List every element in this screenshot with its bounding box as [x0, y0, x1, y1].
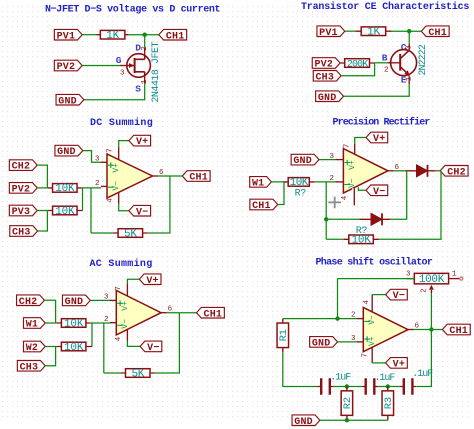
wire GND rail: [320, 419, 388, 421]
resistor R2 pins: [346, 387, 348, 421]
potentiometer RV1 pin 3: [406, 278, 414, 280]
op-amp U1 body: [107, 154, 153, 198]
svg-text:V−: V−: [393, 291, 405, 302]
svg-text:3: 3: [351, 335, 356, 343]
wire PV2 to gate: [82, 65, 120, 67]
wire pin4 to V-: [127, 341, 140, 347]
svg-text:V+: V+: [146, 276, 158, 287]
global label V+ (rect): [366, 132, 388, 145]
capacitor C3 pins: [400, 386, 416, 388]
global label GND (phase): [310, 337, 338, 350]
wire R8 to CH2 node: [379, 171, 442, 240]
pin name E: [401, 75, 407, 86]
diode D1 pins: [406, 170, 436, 172]
global label W2: [24, 341, 46, 354]
wire emitter to GND: [344, 84, 410, 96]
pin number 2 (phase): [351, 312, 356, 320]
op-amp U2 pin 6: [388, 170, 394, 172]
pin number 3 (phase): [351, 335, 356, 343]
resistor R3 200K pins: [340, 62, 375, 64]
svg-text:DC Summing: DC Summing: [90, 117, 153, 129]
resistor R8 10K: [349, 235, 374, 247]
global label PV2 (DC): [9, 183, 37, 196]
svg-text:PV2: PV2: [57, 62, 76, 73]
svg-text:2: 2: [351, 312, 356, 320]
wire inverting node down: [325, 182, 327, 239]
pin number 2: [141, 46, 149, 51]
wire feedback bottom: [91, 232, 113, 234]
svg-text:10K: 10K: [64, 318, 84, 330]
global label PV2: [54, 60, 82, 73]
wire CH3 to PV3 node: [38, 211, 48, 232]
pin number 3 (AC): [104, 294, 109, 302]
global label V- (AC): [140, 341, 162, 354]
op-amp U2 pin 4: [352, 188, 357, 205]
transistor Q2 base pin: [388, 62, 400, 64]
wire to D2: [326, 218, 359, 220]
global label W1 (AC): [24, 318, 46, 331]
svg-text:10K: 10K: [55, 183, 75, 195]
potentiometer RV1 pin 1: [449, 277, 463, 280]
resistor R1 pins: [282, 319, 284, 352]
junction inverting node: [324, 217, 328, 221]
pin number 2 (pot): [420, 288, 428, 293]
junction R2 bottom: [345, 418, 349, 422]
wire 200K to base: [375, 62, 388, 64]
wire PV3 to R5: [37, 210, 48, 212]
op-amp U4 pin 4 (top): [371, 295, 373, 312]
resistor R7 10K pins: [283, 181, 315, 183]
svg-text:PV3: PV3: [12, 207, 31, 218]
pin number 6 (AC): [168, 306, 173, 314]
resistor R10 10K pins: [57, 346, 92, 348]
svg-text:R2: R2: [342, 397, 354, 409]
resistor R3: [382, 391, 395, 416]
wire output: [394, 170, 407, 172]
resistor R2 1K: [361, 27, 386, 39]
op-amp U1 pin 2: [101, 185, 107, 187]
pin number 7 (AC): [115, 286, 123, 291]
wire feedback left (AC): [103, 323, 105, 373]
wire output junction: [414, 329, 443, 331]
wire R1 to CH1: [129, 34, 159, 36]
svg-text:CH1: CH1: [204, 309, 223, 320]
resistor R4 10K: [53, 183, 78, 195]
wire GND to pin3: [90, 299, 110, 301]
pin number 2 (rect): [329, 175, 334, 183]
wire inverting row: [338, 318, 358, 320]
wire R1 bottom to C1: [283, 352, 318, 387]
svg-text:100K: 100K: [419, 274, 445, 286]
wire PV1 to R2: [345, 30, 356, 32]
wire to R8: [326, 238, 343, 240]
svg-text:4: 4: [107, 198, 115, 203]
global label V+ (AC): [139, 274, 161, 287]
resistor R8 10K pins: [344, 238, 379, 240]
resistor R9 10K: [61, 318, 86, 330]
op-amp U4 pin 2: [357, 318, 363, 320]
svg-text:10K: 10K: [64, 342, 84, 354]
wire GND to pin3: [83, 151, 101, 163]
global label V- (DC): [129, 205, 151, 218]
svg-text:V−: V−: [136, 207, 148, 218]
global label CH2 (AC): [17, 295, 45, 308]
transistor Q2 2N2222 body: [391, 50, 417, 76]
resistor R4 10K pins: [48, 187, 82, 189]
junction output node (phase): [429, 327, 433, 331]
svg-text:2: 2: [329, 175, 334, 183]
transistor Q2 collector pin: [408, 44, 410, 50]
transistor Q1 gate pin: [120, 63, 135, 68]
svg-text:5K: 5K: [131, 368, 144, 380]
op-amp U2 pin 3: [336, 159, 344, 161]
pin number 6: [159, 169, 164, 177]
wire GND to pin3: [319, 159, 336, 161]
op-amp U3 pin 6: [161, 312, 167, 314]
svg-text:V−: V−: [121, 319, 130, 329]
wire R9 to pin2: [91, 322, 110, 324]
svg-text:Transistor CE Characteristics: Transistor CE Characteristics: [301, 1, 469, 13]
resistor R1: [277, 323, 290, 348]
svg-text:R3: R3: [383, 397, 395, 409]
global label CH2 (rect): [440, 166, 468, 179]
global label GND (DC): [55, 145, 83, 158]
svg-text:2: 2: [104, 316, 109, 324]
wire feedback right: [148, 176, 170, 233]
global label CH3 (AC): [17, 361, 45, 374]
svg-text:V+: V+: [112, 163, 121, 173]
reference R?: [295, 189, 307, 200]
potentiometer RV1 100K: [414, 273, 448, 286]
svg-text:2: 2: [384, 67, 389, 75]
wire output to C3: [417, 330, 432, 387]
wire R1 top to node: [283, 318, 338, 320]
wire C1 to C2: [334, 386, 362, 388]
svg-text:PV2: PV2: [314, 60, 333, 71]
svg-text:4: 4: [341, 195, 349, 200]
op-amp U3 input marks: [117, 301, 130, 329]
svg-text:GND: GND: [65, 297, 84, 308]
wire V- stub: [358, 187, 366, 190]
svg-text:CH3: CH3: [12, 228, 31, 239]
global label PV1: [54, 29, 82, 42]
svg-text:PV2: PV2: [12, 185, 31, 196]
wire PV1 to R1: [82, 34, 96, 36]
wire R4 to pin2: [82, 187, 101, 189]
op-amp U3 pin 3: [110, 299, 116, 301]
global label CH1: [159, 29, 187, 42]
op-amp U1 pin 6: [153, 175, 159, 177]
wire pot3 to inverting node: [338, 279, 415, 319]
wire D1 to CH2: [435, 170, 440, 172]
global label CH1 (AC): [197, 307, 225, 320]
svg-text:.1uF: .1uF: [330, 373, 351, 384]
svg-text:2N4418 JFET: 2N4418 JFET: [151, 42, 162, 103]
op-amp U4 pin 6: [408, 329, 414, 331]
op-amp U1 pin 3: [101, 161, 107, 163]
svg-text:V−: V−: [368, 315, 377, 325]
pin number 3: [95, 156, 100, 164]
svg-text:GND: GND: [57, 147, 76, 158]
pin number 3 (rect): [329, 153, 334, 161]
svg-text:1K: 1K: [106, 30, 119, 42]
junction collector node: [407, 29, 411, 33]
op-amp U2 body: [343, 149, 388, 193]
wire join W2 node: [91, 323, 93, 347]
svg-text:W1: W1: [26, 320, 38, 331]
svg-text:Precision Rectifier: Precision Rectifier: [333, 117, 431, 129]
svg-text:.1uF: .1uF: [374, 373, 395, 384]
svg-text:V+: V+: [393, 360, 405, 371]
potentiometer RV1 wiper pin 2: [429, 285, 434, 293]
global label CH1 (right): [421, 26, 449, 39]
pin number 4: [107, 198, 115, 203]
global label CH2 (DC): [9, 160, 37, 173]
pin number 2: [95, 180, 100, 188]
svg-text:CH1: CH1: [252, 201, 271, 212]
svg-text:2: 2: [420, 288, 428, 293]
op-amp U1 input marks: [108, 162, 121, 190]
global label PV2 (right): [312, 58, 340, 71]
op-amp U4 input marks: [364, 315, 377, 346]
title: Phase shift oscillator: [316, 257, 433, 269]
transistor Q1 source pin: [144, 72, 146, 83]
wire collector: [408, 31, 410, 44]
wire R2 to CH1: [392, 30, 422, 32]
global label W1: [250, 177, 272, 190]
svg-text:2N2222: 2N2222: [418, 44, 429, 76]
pin number 1 (emitter): [406, 76, 414, 81]
wire pin7 to V+: [127, 279, 139, 284]
resistor R2 1K pins: [355, 30, 391, 32]
pin number 7: [107, 148, 115, 153]
global label CH3 (DC): [10, 226, 38, 239]
diode D1: [417, 165, 428, 177]
resistor R5 10K: [53, 206, 78, 218]
wire wiper to output: [430, 293, 432, 330]
op-amp U1 pin 4: [118, 192, 120, 203]
svg-text:1K: 1K: [367, 27, 380, 39]
pin name B: [382, 53, 388, 64]
svg-text:V+: V+: [373, 134, 385, 145]
resistor R1 1K pins: [97, 34, 129, 36]
global label PV3: [9, 205, 37, 218]
op-amp U3 pin 4: [126, 329, 128, 340]
global label PV1 (right): [317, 26, 345, 39]
svg-text:5K: 5K: [124, 228, 137, 240]
svg-text:7: 7: [362, 353, 370, 358]
global label CH3 (right): [313, 71, 341, 84]
wire W1 to R7: [271, 181, 283, 183]
wire C2 to C3: [378, 386, 400, 388]
svg-text:10K: 10K: [290, 177, 309, 189]
svg-text:B: B: [382, 53, 388, 64]
global label V- (rect): [366, 185, 388, 198]
svg-text:W2: W2: [26, 343, 38, 354]
svg-text:V−: V−: [112, 181, 121, 191]
junction R2 top: [345, 384, 349, 388]
op-amp U3 pin 2: [110, 322, 116, 324]
resistor R11 5K: [126, 368, 151, 380]
junction R3 top: [386, 384, 390, 388]
wire GND to pin3 (phase): [338, 341, 358, 343]
wire D2 to output node: [390, 171, 407, 220]
diode D2: [371, 213, 382, 225]
svg-text:7: 7: [107, 148, 115, 153]
pin number 7 (phase): [362, 353, 370, 358]
pin number 1 (pot): [452, 271, 457, 279]
resistor R6 5K pins: [113, 232, 148, 234]
pin number 6 (rect): [395, 164, 400, 172]
svg-text:CH1: CH1: [166, 31, 185, 42]
wire feedback right (AC): [155, 313, 179, 373]
wire CH2 to W1 node: [44, 300, 55, 323]
global label GND (bottom): [292, 415, 320, 428]
wire join R5 node: [82, 188, 84, 211]
pin name S: [135, 84, 141, 95]
global label V+ (DC): [129, 135, 151, 148]
resistor R5 10K pins: [48, 210, 83, 212]
wire output to CH1 (AC): [167, 312, 197, 314]
title: N-JFET D-S voltage vs D current: [45, 4, 221, 16]
resistor R6 5K: [118, 228, 143, 240]
title: AC Summing: [90, 258, 153, 270]
pin number 3 (pot): [406, 271, 411, 279]
svg-text:.1uF: .1uF: [412, 369, 433, 380]
wire drain: [144, 35, 146, 48]
transistor Q1 2N4418 JFET body: [127, 54, 151, 78]
svg-text:CH1: CH1: [449, 326, 468, 337]
op-amp U4 body: [363, 308, 408, 352]
wire CH3 to base node: [341, 63, 375, 76]
junction drain node: [143, 33, 147, 37]
pin name C: [401, 42, 407, 53]
pin number 4 (rect): [341, 195, 349, 200]
wire pin7 to V+: [119, 141, 129, 148]
svg-text:PV1: PV1: [57, 31, 76, 42]
wire feedback left: [90, 188, 92, 233]
capacitor C2: [366, 378, 375, 395]
svg-text:7: 7: [343, 144, 351, 149]
svg-text:PV1: PV1: [319, 28, 338, 39]
svg-text:2: 2: [95, 180, 100, 188]
global label GND: [56, 94, 84, 107]
title: Precision Rectifier: [333, 117, 431, 129]
pin number 4 (AC): [115, 336, 123, 341]
junction inverting node (phase): [335, 316, 339, 320]
wire pin4 to V-: [119, 204, 129, 211]
svg-text:200K: 200K: [347, 59, 368, 70]
op-amp U4 pin 7 (bottom): [371, 347, 373, 363]
global label V+ (phase): [386, 358, 408, 371]
svg-text:GND: GND: [312, 339, 331, 350]
pin number 1: [141, 79, 149, 84]
svg-text:4: 4: [363, 299, 371, 304]
svg-text:3: 3: [95, 156, 100, 164]
wire CH3 to W2 node: [45, 347, 55, 366]
value .1uF (C3): [412, 369, 433, 380]
pin number 3 (collector): [406, 45, 414, 50]
svg-text:V−: V−: [373, 187, 385, 198]
svg-text:3: 3: [329, 153, 334, 161]
value 2N4418 JFET: [151, 42, 162, 103]
resistor R11 5K pins: [120, 372, 155, 374]
svg-text:7: 7: [115, 286, 123, 291]
svg-text:N−JFET D−S voltage vs D curren: N−JFET D−S voltage vs D current: [45, 4, 221, 16]
resistor R7 10K: [288, 177, 309, 189]
resistor R3 pins: [387, 387, 389, 421]
resistor R9 10K pins: [57, 322, 91, 324]
svg-text:1: 1: [452, 271, 457, 279]
op-amp U4 pin 3: [357, 341, 363, 343]
op-amp U2 pin 7: [354, 144, 356, 154]
resistor R1 1K: [100, 30, 125, 42]
svg-text:CH1: CH1: [428, 28, 447, 39]
global label CH1 (rect): [250, 199, 278, 212]
pin number 7 (rect): [343, 144, 351, 149]
pin number 4 (phase): [363, 299, 371, 304]
op-amp U2 pin 2: [336, 181, 344, 183]
svg-text:V−: V−: [348, 178, 357, 188]
value .1uF (C1): [330, 373, 351, 384]
svg-text:GND: GND: [293, 156, 312, 167]
svg-text:V+: V+: [121, 301, 130, 311]
wire R7 to pin2: [315, 181, 336, 183]
wire PV2 to R4: [37, 187, 48, 189]
value 2N2222: [418, 44, 429, 76]
global label GND (rect): [291, 154, 319, 167]
svg-text:3: 3: [406, 271, 411, 279]
pin number 2 (base): [384, 67, 389, 75]
transistor Q1 drain pin: [144, 48, 146, 59]
wire pin4 to V- (phase): [372, 294, 385, 296]
svg-text:4: 4: [115, 336, 123, 341]
wire CH2 to PV2 node: [37, 165, 47, 188]
wire source to GND: [84, 83, 145, 100]
global label GND (AC): [62, 295, 90, 308]
transistor Q2 emitter pin: [408, 76, 410, 85]
wire output to CH1: [158, 175, 182, 177]
global label CH1 (DC): [182, 171, 210, 184]
op-amp U3 pin 7: [126, 284, 128, 296]
svg-text:CH1: CH1: [189, 173, 208, 184]
svg-text:GND: GND: [58, 96, 77, 107]
op-amp U3 body: [116, 291, 161, 335]
svg-text:10K: 10K: [351, 235, 371, 247]
svg-text:V+: V+: [348, 160, 357, 170]
capacitor C3: [404, 378, 413, 395]
resistor R2: [341, 391, 354, 416]
op-amp U1 pin 7: [118, 148, 120, 160]
global label V- (phase): [386, 289, 408, 302]
resistor R10 10K: [61, 342, 86, 354]
svg-text:CH2: CH2: [447, 167, 466, 178]
resistor R3 200K: [345, 59, 370, 71]
svg-text:10K: 10K: [55, 206, 75, 218]
title: DC Summing: [90, 117, 153, 129]
svg-text:CH3: CH3: [315, 72, 334, 83]
svg-text:CH2: CH2: [19, 297, 38, 308]
svg-text:AC Summing: AC Summing: [90, 258, 153, 270]
value .1uF (C2): [374, 373, 395, 384]
capacitor C1: [321, 378, 330, 395]
svg-text:3: 3: [104, 294, 109, 302]
svg-text:GND: GND: [294, 417, 313, 428]
svg-text:R1: R1: [278, 329, 290, 341]
svg-text:1: 1: [406, 76, 414, 81]
pin number 3: [120, 70, 125, 78]
svg-text:G: G: [116, 55, 122, 66]
